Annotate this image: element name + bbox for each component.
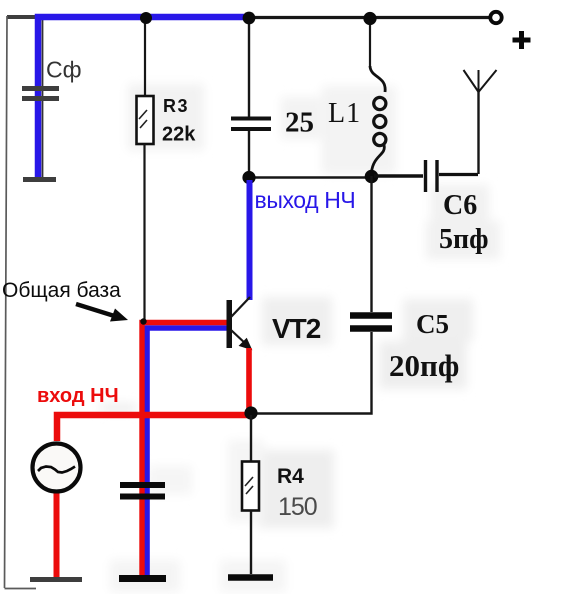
wire bbox=[38, 17, 250, 179]
resistor R4 bbox=[242, 462, 317, 522]
svg-text:150: 150 bbox=[278, 493, 317, 521]
svg-text:L1: L1 bbox=[328, 98, 361, 129]
capacitor Сф bbox=[22, 57, 82, 99]
junction dot bbox=[140, 12, 152, 24]
wire bbox=[57, 415, 249, 441]
junction dot bbox=[363, 12, 376, 25]
wire bbox=[5, 16, 37, 589]
capacitor C6 bbox=[426, 160, 489, 255]
label Общая база bbox=[2, 279, 128, 322]
junction dot bbox=[140, 318, 146, 324]
positive supply terminal bbox=[490, 12, 530, 49]
wire bbox=[41, 16, 489, 19]
capacitor (emitter bypass) bbox=[120, 485, 165, 497]
ac source G1 bbox=[33, 444, 81, 492]
wire bbox=[7, 15, 41, 19]
wire bbox=[248, 18, 250, 117]
capacitor C5 bbox=[350, 309, 459, 383]
wire bbox=[369, 18, 371, 66]
svg-text:R4: R4 bbox=[277, 465, 304, 488]
svg-text:R3: R3 bbox=[163, 96, 189, 116]
junction dot bbox=[365, 170, 379, 184]
svg-text:20пф: 20пф bbox=[389, 348, 459, 383]
svg-text:выход НЧ: выход НЧ bbox=[255, 187, 356, 213]
transistor VT2 bbox=[227, 297, 321, 349]
wire bbox=[250, 415, 252, 461]
inductor L1 bbox=[328, 66, 386, 172]
wire bbox=[144, 18, 146, 96]
wire bbox=[370, 176, 372, 312]
svg-text:VT2: VT2 bbox=[272, 313, 321, 344]
wire bbox=[374, 174, 423, 178]
junction dot bbox=[244, 406, 257, 419]
ground bbox=[119, 575, 166, 582]
junction dot bbox=[243, 12, 256, 25]
wire bbox=[439, 173, 478, 176]
svg-text:вход НЧ: вход НЧ bbox=[37, 385, 119, 407]
svg-text:Общая база: Общая база bbox=[2, 279, 121, 302]
wire bbox=[147, 328, 228, 580]
wire bbox=[143, 144, 145, 322]
wire bbox=[42, 18, 44, 177]
wire bbox=[247, 180, 253, 300]
svg-text:C6: C6 bbox=[443, 190, 477, 221]
junction dot bbox=[242, 171, 255, 184]
svg-text:22k: 22k bbox=[162, 124, 196, 146]
svg-text:25: 25 bbox=[285, 107, 314, 139]
ground bbox=[30, 577, 82, 582]
svg-text:C5: C5 bbox=[416, 309, 449, 339]
wire bbox=[251, 332, 372, 414]
wire bbox=[54, 494, 60, 578]
wire bbox=[249, 176, 372, 178]
antenna bbox=[464, 70, 497, 174]
label вход НЧ bbox=[37, 385, 119, 407]
ground bbox=[228, 574, 273, 581]
label выход НЧ bbox=[255, 187, 356, 213]
svg-text:Сф: Сф bbox=[46, 57, 82, 83]
wire bbox=[250, 511, 252, 575]
wire bbox=[246, 348, 252, 413]
wire bbox=[248, 131, 250, 178]
svg-text:5пф: 5пф bbox=[439, 224, 489, 255]
ground bbox=[23, 177, 56, 182]
wire bbox=[142, 323, 228, 581]
capacitor 25 bbox=[231, 107, 314, 139]
resistor R3 bbox=[137, 88, 405, 148]
